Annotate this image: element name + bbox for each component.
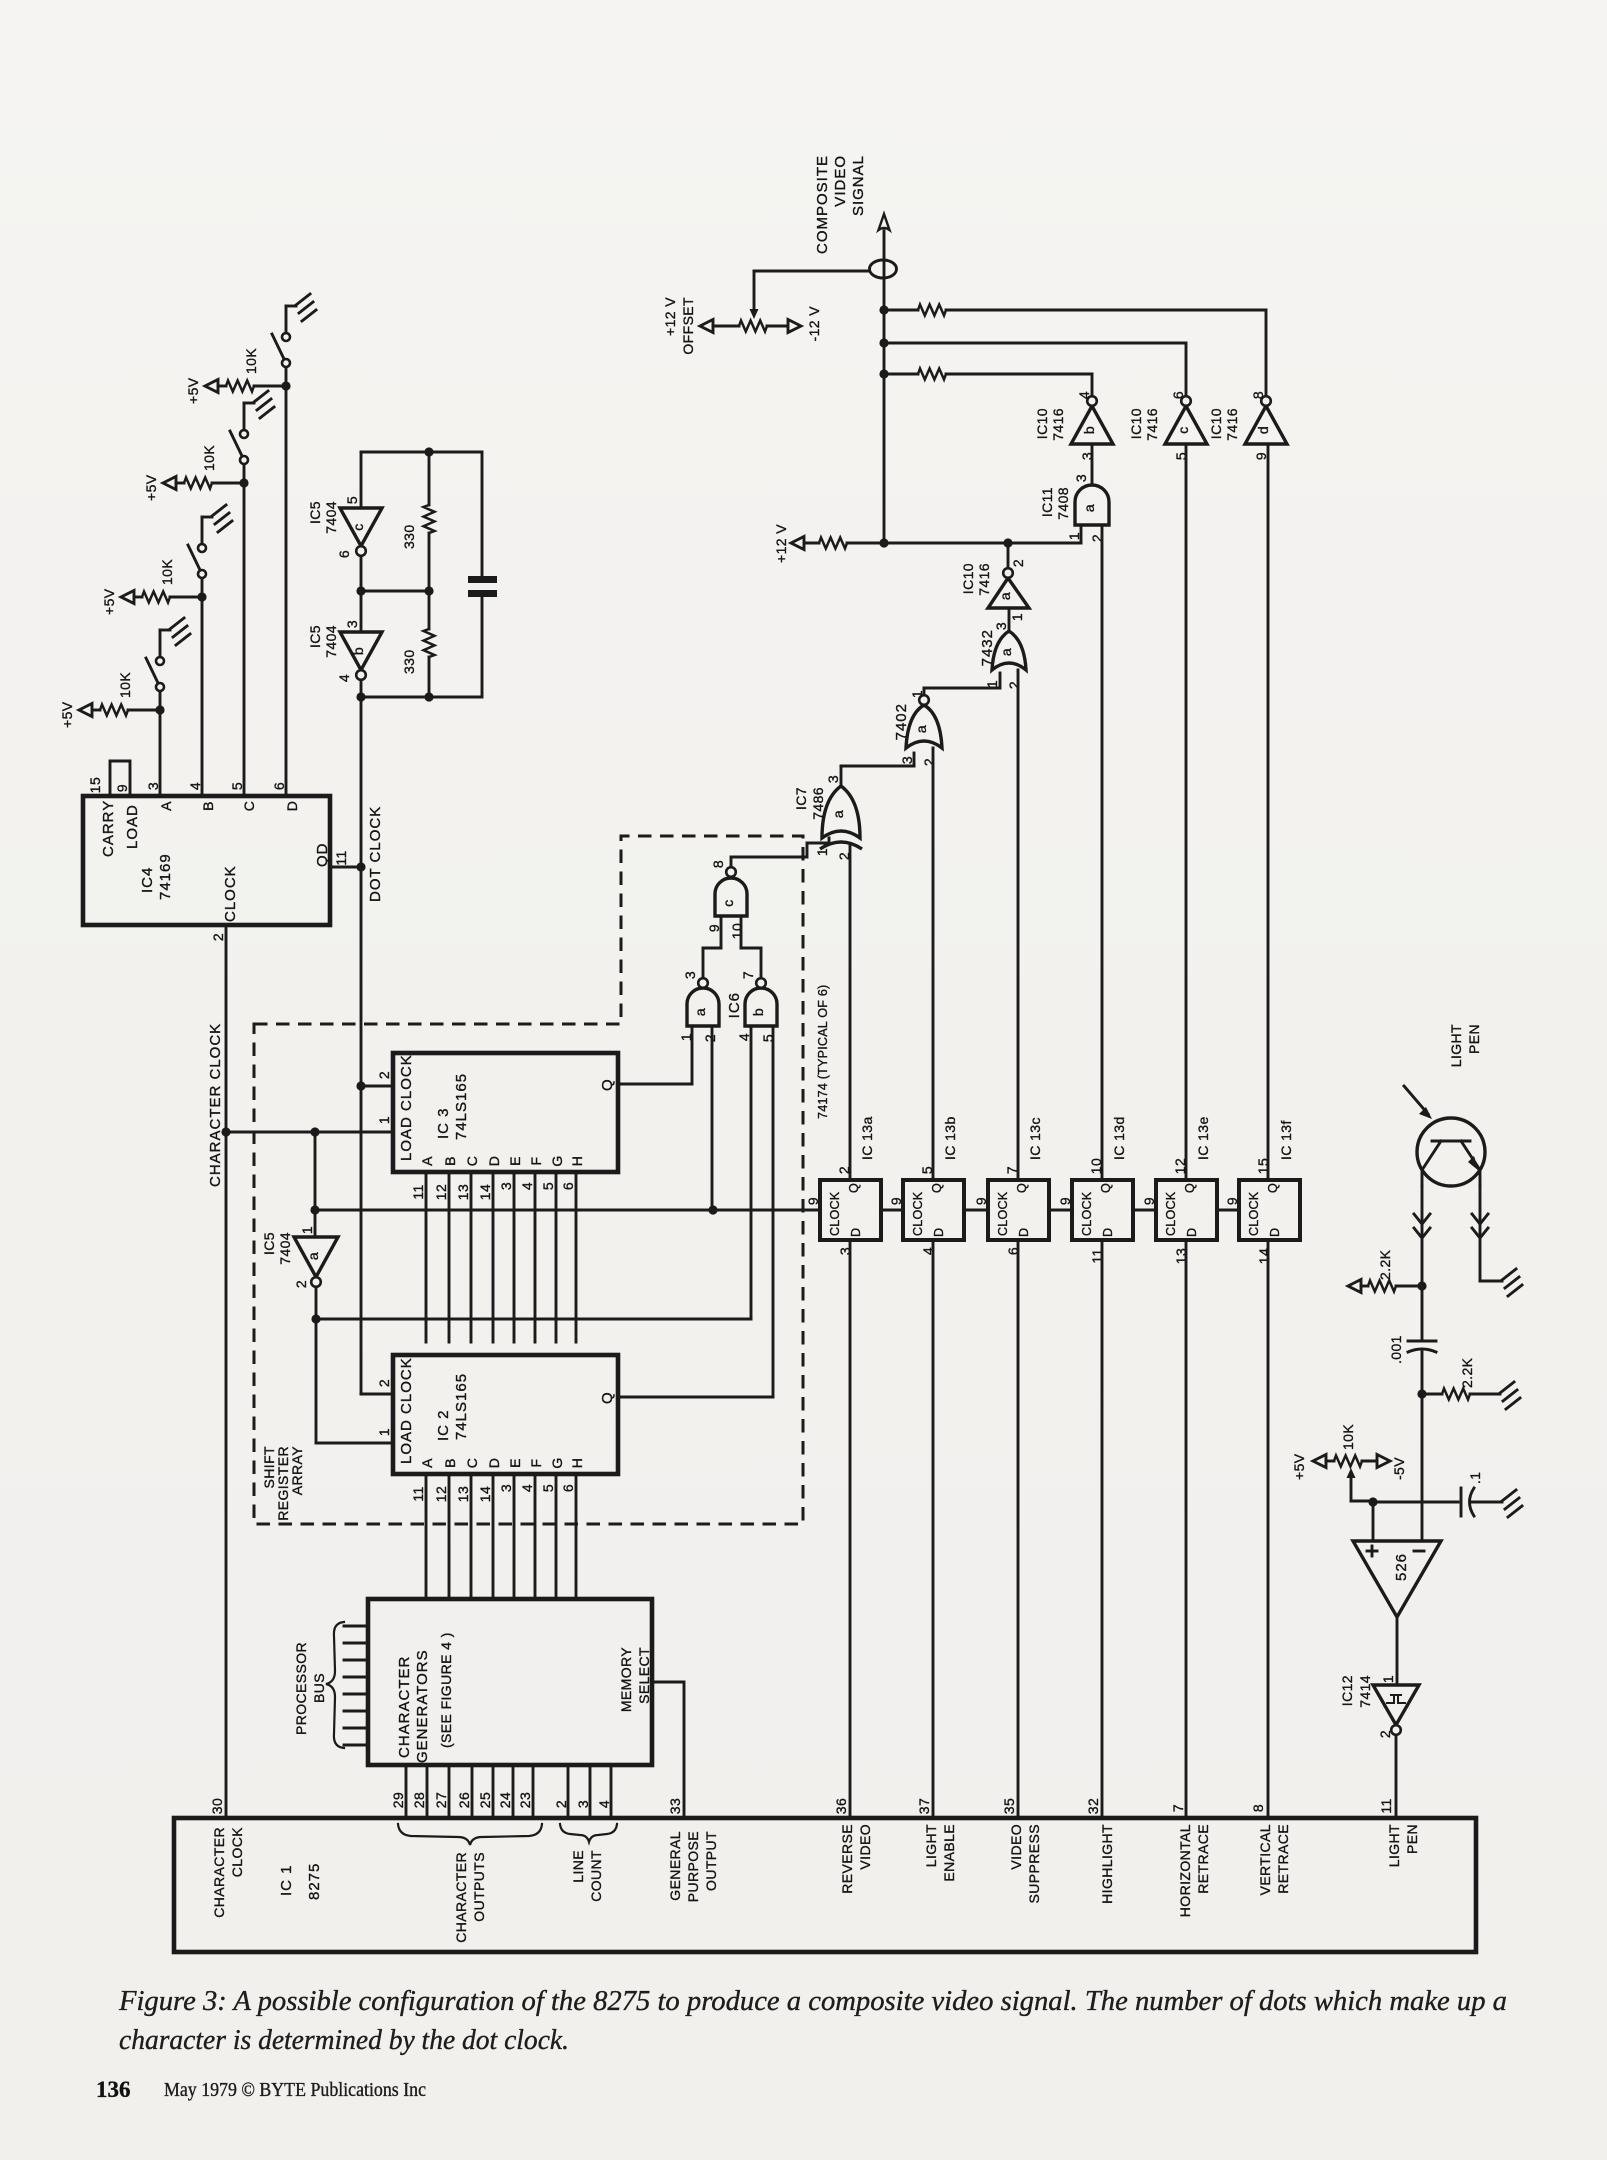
- svg-text:Figure 3: A possible configura: Figure 3: A possible configuration of th…: [118, 1986, 1507, 2017]
- svg-text:CLOCK: CLOCK: [1080, 1191, 1094, 1236]
- svg-text:COUNT: COUNT: [588, 1850, 604, 1902]
- svg-text:15: 15: [87, 777, 103, 793]
- svg-text:6: 6: [336, 550, 352, 558]
- inverter IC10b 7416: [1071, 406, 1113, 444]
- svg-text:2: 2: [553, 1800, 569, 1808]
- counter IC4 74169: [83, 796, 330, 925]
- resistor RC 10K pull-up: [163, 477, 176, 490]
- inverter IC12 7414 schmitt: [1373, 1685, 1419, 1725]
- svg-text:7: 7: [740, 971, 756, 979]
- svg-text:9: 9: [1057, 1197, 1073, 1205]
- capacitor .001: [1408, 1340, 1436, 1343]
- svg-text:a: a: [830, 810, 846, 818]
- NAND gate IC6c: [715, 878, 747, 916]
- svg-text:IC11: IC11: [1039, 487, 1055, 517]
- svg-text:1: 1: [299, 1226, 315, 1234]
- switch SD: [285, 367, 288, 386]
- svg-text:Q: Q: [930, 1183, 944, 1193]
- svg-text:CHARACTER: CHARACTER: [453, 1852, 469, 1943]
- wire IC6a pin 2 to clock line: [711, 1026, 714, 1210]
- wire IC4 input C column: [243, 483, 246, 796]
- svg-text:D: D: [1101, 1228, 1115, 1237]
- svg-text:7402: 7402: [893, 703, 910, 740]
- svg-text:13: 13: [455, 1486, 471, 1502]
- svg-text:36: 36: [833, 1798, 849, 1814]
- svg-text:7404: 7404: [323, 501, 339, 534]
- svg-text:4: 4: [519, 1484, 535, 1492]
- svg-text:4: 4: [336, 674, 352, 682]
- svg-text:28: 28: [411, 1792, 427, 1808]
- wire IC6a output to IC6c pin 9: [702, 948, 705, 978]
- svg-text:Q: Q: [599, 1078, 616, 1091]
- svg-text:a: a: [1081, 504, 1097, 512]
- wire IC10b output to open-collector rail: [1091, 374, 1094, 396]
- wire oscillator bottom rail: [360, 680, 363, 697]
- ground for switch A: [170, 618, 190, 645]
- svg-text:IC4: IC4: [139, 867, 156, 893]
- svg-text:30: 30: [209, 1798, 225, 1814]
- svg-text:74LS165: 74LS165: [453, 1373, 470, 1440]
- pot wiper arrow: [1347, 1468, 1356, 1478]
- svg-text:12: 12: [433, 1184, 449, 1200]
- resistor 330 upper: [428, 452, 431, 505]
- svg-text:14: 14: [477, 1184, 493, 1200]
- svg-text:+12 V: +12 V: [773, 524, 789, 563]
- svg-text:5: 5: [540, 1182, 556, 1190]
- supply +12V arrow: [791, 537, 804, 550]
- wire IC10d output to rail: [1265, 310, 1268, 396]
- svg-text:CLOCK: CLOCK: [828, 1191, 842, 1236]
- svg-text:GENERATORS: GENERATORS: [414, 1649, 431, 1763]
- svg-text:CHARACTER CLOCK: CHARACTER CLOCK: [207, 1023, 224, 1187]
- wire IC13f D input from 8275: [1267, 1240, 1270, 1818]
- svg-text:526: 526: [1393, 1553, 1410, 1581]
- svg-text:Q: Q: [1015, 1183, 1029, 1193]
- svg-text:8275: 8275: [306, 1863, 323, 1900]
- svg-text:2: 2: [1377, 1730, 1393, 1738]
- svg-text:8: 8: [710, 860, 726, 868]
- svg-text:REVERSE: REVERSE: [839, 1824, 855, 1894]
- wire QD stub from IC4: [330, 866, 361, 869]
- svg-text:IC5: IC5: [307, 501, 323, 524]
- resistor +12V feed: [804, 542, 819, 545]
- svg-text:Q: Q: [1266, 1183, 1280, 1193]
- wire IC13a D input from 8275: [849, 1240, 852, 1818]
- svg-text:-12 V: -12 V: [806, 306, 822, 342]
- svg-text:a: a: [998, 648, 1014, 656]
- svg-text:IC 13d: IC 13d: [1111, 1116, 1127, 1160]
- svg-text:D: D: [849, 1228, 863, 1237]
- svg-text:D: D: [1185, 1228, 1199, 1237]
- svg-text:IC 13e: IC 13e: [1195, 1116, 1211, 1160]
- wire 7432 output to IC10a input: [1008, 608, 1011, 632]
- svg-text:B: B: [442, 1458, 458, 1468]
- svg-text:11: 11: [410, 1184, 426, 1199]
- svg-text:Q: Q: [1183, 1183, 1197, 1193]
- svg-text:G: G: [549, 1155, 565, 1166]
- svg-text:VIDEO: VIDEO: [857, 1824, 873, 1870]
- inverter IC5a 7404: [314, 1132, 317, 1237]
- svg-text:D: D: [486, 1458, 502, 1469]
- OR gate 7432a: [992, 631, 1026, 670]
- svg-text:IC10: IC10: [1034, 408, 1050, 439]
- resistor 2.2K upper: [1348, 1280, 1361, 1293]
- svg-text:2.2K: 2.2K: [1459, 1357, 1475, 1388]
- svg-text:DOT CLOCK: DOT CLOCK: [367, 806, 384, 902]
- switch SC: [243, 464, 246, 483]
- svg-text:9: 9: [114, 784, 130, 792]
- inverter IC5c 7404: [340, 508, 382, 546]
- svg-text:RETRACE: RETRACE: [1195, 1824, 1211, 1894]
- wire IC13c Q output up: [1017, 670, 1020, 1180]
- switch SA: [159, 691, 162, 710]
- svg-text:D: D: [1268, 1228, 1282, 1237]
- character output pins 29-23 to 8275: [405, 1765, 408, 1818]
- svg-text:IC 1: IC 1: [278, 1864, 295, 1896]
- node clock distribution start: [310, 1205, 319, 1214]
- IC2 input wires down to character generator: [425, 1474, 428, 1599]
- svg-text:7432: 7432: [979, 629, 996, 666]
- svg-text:330: 330: [401, 649, 417, 674]
- svg-text:.1: .1: [1467, 1472, 1483, 1484]
- svg-text:1: 1: [1009, 613, 1025, 621]
- svg-text:IC10: IC10: [960, 563, 976, 594]
- svg-text:8: 8: [1250, 391, 1266, 399]
- svg-text:B: B: [442, 1156, 458, 1166]
- svg-text:Q: Q: [599, 1391, 616, 1404]
- svg-text:COMPOSITE: COMPOSITE: [814, 155, 831, 254]
- svg-text:A: A: [419, 1156, 435, 1166]
- svg-text:a: a: [997, 592, 1013, 600]
- svg-text:H: H: [569, 1156, 585, 1167]
- svg-text:ENABLE: ENABLE: [941, 1824, 957, 1882]
- flip-flop IC13c 74174: [988, 1180, 1049, 1240]
- wire right lead to ground: [1480, 1280, 1502, 1283]
- svg-text:5: 5: [540, 1484, 556, 1492]
- phototransistor leads: [1421, 1186, 1424, 1286]
- svg-text:4: 4: [596, 1800, 612, 1808]
- svg-text:character is determined by the: character is determined by the dot clock…: [119, 2025, 569, 2056]
- wire IC13a Q output up: [849, 845, 852, 1180]
- inverter IC10a 7416: [988, 578, 1029, 608]
- svg-text:VIDEO: VIDEO: [832, 155, 849, 207]
- node composite video at +12V rail: [879, 538, 888, 547]
- shift register IC3 74LS165: [393, 1053, 618, 1172]
- svg-text:3: 3: [682, 971, 698, 979]
- svg-text:IC 13b: IC 13b: [942, 1116, 958, 1160]
- wire to coupling cap: [1421, 1286, 1424, 1341]
- svg-text:4: 4: [1076, 391, 1092, 399]
- svg-text:9: 9: [805, 1197, 821, 1205]
- svg-text:8: 8: [1250, 1804, 1266, 1812]
- svg-text:ARRAY: ARRAY: [289, 1446, 305, 1495]
- wire switch D to ground: [285, 306, 288, 333]
- svg-text:May 1979 © BYTE Publications I: May 1979 © BYTE Publications Inc: [164, 2080, 426, 2101]
- wire IC6c output to IC7 pin 1: [731, 838, 829, 867]
- svg-text:33: 33: [667, 1798, 683, 1814]
- wire IC13b D input from 8275: [932, 1240, 935, 1818]
- svg-text:D: D: [284, 801, 300, 812]
- svg-text:LOAD CLOCK: LOAD CLOCK: [398, 1054, 415, 1161]
- IC3 pin 2 clock stub: [361, 1085, 393, 1088]
- svg-text:D: D: [932, 1228, 946, 1237]
- svg-text:LINE: LINE: [570, 1850, 586, 1883]
- wire IC10a output to +12V node: [1007, 543, 1010, 568]
- svg-text:6: 6: [560, 1484, 576, 1492]
- inverter IC10c 7416: [1165, 406, 1207, 444]
- svg-text:LIGHT: LIGHT: [1386, 1824, 1402, 1867]
- wire IC5a output to junction: [315, 1287, 318, 1319]
- svg-text:2.2K: 2.2K: [1377, 1249, 1393, 1280]
- node dot clock at QD: [356, 862, 365, 871]
- svg-text:d: d: [1255, 426, 1271, 434]
- wire IC13e Q output up: [1185, 444, 1188, 1180]
- svg-text:10K: 10K: [201, 445, 217, 471]
- svg-text:2: 2: [1006, 681, 1022, 689]
- svg-text:c: c: [1175, 426, 1191, 433]
- svg-text:QD: QD: [314, 843, 331, 868]
- svg-text:4: 4: [736, 1033, 752, 1041]
- svg-text:B: B: [200, 801, 216, 811]
- svg-text:a: a: [913, 725, 929, 733]
- svg-text:+5V: +5V: [185, 377, 201, 404]
- svg-text:D: D: [1017, 1228, 1031, 1237]
- composite video output terminal arrow: [879, 214, 890, 230]
- potentiometer 10K threshold: [1313, 1455, 1326, 1468]
- svg-text:6: 6: [1170, 391, 1186, 399]
- offset potentiometer 12V: [700, 320, 713, 333]
- svg-text:35: 35: [1001, 1798, 1017, 1814]
- svg-text:11: 11: [333, 850, 349, 865]
- svg-text:H: H: [569, 1458, 585, 1469]
- svg-text:CLOCK: CLOCK: [222, 865, 239, 922]
- wire IC6b output to IC6c pin 10: [760, 948, 763, 978]
- resistor 330 lower: [428, 591, 431, 629]
- svg-text:+5V: +5V: [59, 701, 75, 728]
- svg-text:7416: 7416: [976, 563, 992, 596]
- svg-text:+12 V: +12 V: [662, 297, 678, 336]
- svg-text:+5V: +5V: [143, 474, 159, 501]
- NAND gate IC6b: [745, 988, 777, 1026]
- wire oscillator mid rail: [360, 556, 363, 632]
- svg-text:b: b: [750, 1008, 766, 1016]
- ground right lead: [1502, 1269, 1522, 1296]
- wire IC13e D input from 8275: [1185, 1240, 1188, 1818]
- open collector rail y310 with resistor: [884, 309, 918, 312]
- svg-text:a: a: [692, 1008, 708, 1016]
- arrow pointing to phototransistor: [1404, 1086, 1428, 1114]
- svg-text:1: 1: [376, 1428, 392, 1436]
- svg-text:7404: 7404: [277, 1232, 293, 1265]
- svg-text:LIGHT: LIGHT: [1448, 1024, 1464, 1067]
- ground for switch C: [254, 391, 274, 418]
- wire inverted clock to IC2 pin 1 load: [315, 1319, 318, 1443]
- svg-text:2: 2: [376, 1071, 392, 1079]
- wire IC10c output to rail: [1185, 343, 1188, 396]
- svg-text:Q: Q: [1099, 1183, 1113, 1193]
- svg-text:2: 2: [1010, 559, 1026, 567]
- svg-text:7: 7: [1170, 1804, 1186, 1812]
- shift register IC2 74LS165: [393, 1355, 618, 1474]
- svg-text:PURPOSE: PURPOSE: [685, 1831, 701, 1902]
- svg-text:32: 32: [1085, 1798, 1101, 1814]
- svg-text:7408: 7408: [1055, 487, 1071, 520]
- svg-text:IC 13a: IC 13a: [859, 1116, 875, 1160]
- svg-text:C: C: [241, 801, 257, 812]
- bypass capacitor .1: [1373, 1501, 1458, 1504]
- svg-text:2: 2: [921, 758, 937, 766]
- svg-text:IC7: IC7: [793, 787, 809, 810]
- flip-flop IC13d 74174: [1072, 1180, 1133, 1240]
- brace and label CHARACTER OUTPUTS: [398, 1824, 542, 1845]
- svg-text:3: 3: [993, 622, 1009, 630]
- svg-text:10: 10: [729, 923, 745, 939]
- svg-text:9: 9: [888, 1197, 904, 1205]
- svg-text:26: 26: [456, 1792, 472, 1808]
- resistor RD 10K pull-up: [205, 380, 218, 393]
- svg-text:+5V: +5V: [1291, 1453, 1307, 1480]
- svg-text:2: 2: [702, 1034, 718, 1042]
- svg-text:14: 14: [1256, 1248, 1272, 1264]
- wire plus input: [1372, 1502, 1375, 1541]
- svg-text:7404: 7404: [323, 625, 339, 658]
- svg-text:11: 11: [410, 1486, 426, 1501]
- flip-flop IC13b 74174: [903, 1180, 964, 1240]
- AND gate IC11 7408a: [1075, 485, 1109, 525]
- wire IC4 input D column: [285, 386, 288, 796]
- svg-text:1: 1: [376, 1116, 392, 1124]
- svg-text:A: A: [158, 801, 174, 811]
- svg-text:PROCESSOR: PROCESSOR: [293, 1642, 309, 1735]
- svg-text:3: 3: [899, 756, 915, 764]
- svg-text:136: 136: [96, 2077, 131, 2102]
- svg-text:330: 330: [401, 524, 417, 549]
- switch SB: [201, 578, 204, 597]
- svg-text:6: 6: [560, 1182, 576, 1190]
- svg-text:IC 13c: IC 13c: [1027, 1117, 1043, 1160]
- svg-text:14: 14: [477, 1486, 493, 1502]
- CRT controller IC1 8275: [174, 1818, 1476, 1952]
- wire IC13b Q output up: [932, 748, 935, 1180]
- svg-text:CARRY: CARRY: [100, 800, 117, 857]
- offset pot wiper arrow: [750, 309, 759, 319]
- svg-text:(SEE FIGURE 4 ): (SEE FIGURE 4 ): [438, 1632, 454, 1748]
- svg-text:GENERAL: GENERAL: [667, 1831, 683, 1901]
- svg-text:7486: 7486: [810, 787, 826, 820]
- svg-text:RETRACE: RETRACE: [1275, 1824, 1291, 1894]
- svg-text:-5V: -5V: [1391, 1457, 1407, 1480]
- wire IC11 output to IC10b input: [1091, 444, 1094, 485]
- IC3 input stub wires going down: [425, 1172, 428, 1342]
- svg-text:BUS: BUS: [311, 1673, 327, 1703]
- inverter IC5b 7404: [340, 632, 382, 670]
- svg-text:F: F: [528, 1459, 544, 1468]
- svg-text:10K: 10K: [1340, 1424, 1356, 1450]
- svg-text:12: 12: [433, 1486, 449, 1502]
- svg-text:7416: 7416: [1144, 408, 1160, 441]
- svg-text:CLOCK: CLOCK: [1164, 1191, 1178, 1236]
- svg-text:3: 3: [498, 1182, 514, 1190]
- svg-text:PEN: PEN: [1404, 1824, 1420, 1854]
- svg-text:E: E: [507, 1458, 523, 1468]
- photodiode chevrons right lead: [1472, 1214, 1488, 1224]
- svg-text:11: 11: [1378, 1798, 1394, 1813]
- wire char clock to IC3 load pin 1: [226, 1131, 393, 1134]
- svg-text:CLOCK: CLOCK: [1247, 1191, 1261, 1236]
- wire IC12 output to 8275 pin 11: [1395, 1735, 1398, 1818]
- svg-text:5: 5: [344, 496, 360, 504]
- svg-text:1: 1: [984, 680, 1000, 688]
- wire IC4 input A column: [159, 710, 162, 796]
- svg-text:CLOCK: CLOCK: [229, 1827, 245, 1877]
- svg-text:SUPPRESS: SUPPRESS: [1026, 1824, 1042, 1903]
- svg-text:b: b: [1081, 426, 1097, 434]
- svg-text:9: 9: [1224, 1197, 1240, 1205]
- svg-text:10K: 10K: [159, 559, 175, 585]
- brace and label LINE COUNT: [560, 1824, 617, 1842]
- svg-text:c: c: [350, 523, 366, 530]
- svg-text:.001: .001: [1388, 1335, 1404, 1364]
- svg-text:b: b: [350, 647, 366, 655]
- svg-text:IC12: IC12: [1339, 1675, 1355, 1706]
- wire IC13d Q output up: [1101, 525, 1104, 1180]
- svg-text:1: 1: [1066, 532, 1082, 540]
- wire IC2 Q to IC6b pin 5: [618, 1396, 773, 1399]
- svg-text:C: C: [464, 1458, 480, 1469]
- svg-text:37: 37: [916, 1798, 932, 1814]
- open collector rail y343: [884, 342, 1186, 345]
- wire IC3 Q to IC6a pin 1: [618, 1083, 692, 1086]
- svg-text:CHARACTER: CHARACTER: [396, 1656, 413, 1758]
- processor bus brace: [326, 1622, 344, 1748]
- svg-text:2: 2: [210, 933, 226, 941]
- svg-text:10K: 10K: [243, 348, 259, 374]
- wire cap node to comparator minus: [1421, 1394, 1424, 1541]
- svg-text:24: 24: [497, 1792, 513, 1808]
- svg-text:74174 (TYPICAL OF 6): 74174 (TYPICAL OF 6): [816, 985, 830, 1119]
- ground bypass cap: [1502, 1490, 1522, 1517]
- svg-text:A: A: [419, 1458, 435, 1468]
- line count pins 2 3 4: [567, 1765, 570, 1818]
- svg-text:3: 3: [1079, 452, 1095, 460]
- svg-text:IC10: IC10: [1128, 408, 1144, 439]
- wire IC4 input B column: [201, 597, 204, 796]
- svg-text:HORIZONTAL: HORIZONTAL: [1177, 1824, 1193, 1917]
- svg-text:IC6: IC6: [726, 992, 743, 1018]
- svg-text:D: D: [486, 1156, 502, 1167]
- svg-text:CLOCK: CLOCK: [996, 1191, 1010, 1236]
- wire switch C to ground: [243, 403, 246, 430]
- svg-text:2: 2: [293, 1280, 309, 1288]
- svg-text:a: a: [305, 1252, 321, 1260]
- svg-text:2: 2: [376, 1379, 392, 1387]
- resistor 2.2K lower: [1422, 1393, 1442, 1396]
- svg-text:IC5: IC5: [307, 625, 323, 648]
- wire switch A to ground: [159, 630, 162, 657]
- svg-text:OFFSET: OFFSET: [680, 297, 696, 355]
- svg-text:SELECT: SELECT: [636, 1647, 652, 1704]
- flip-flop IC13a 74174: [820, 1180, 881, 1240]
- wire DOT CLOCK vertical: [360, 697, 363, 1086]
- svg-text:1: 1: [1380, 1675, 1396, 1683]
- comparator 526: [1353, 1541, 1441, 1617]
- svg-text:74LS165: 74LS165: [453, 1073, 470, 1140]
- svg-text:7416: 7416: [1224, 408, 1240, 441]
- inverter IC10d 7416: [1245, 406, 1287, 444]
- ground for switch D: [296, 294, 316, 321]
- wire CHARACTER CLOCK vertical pin2 IC4 to pin30 8275: [225, 925, 228, 1818]
- svg-text:74169: 74169: [157, 853, 174, 900]
